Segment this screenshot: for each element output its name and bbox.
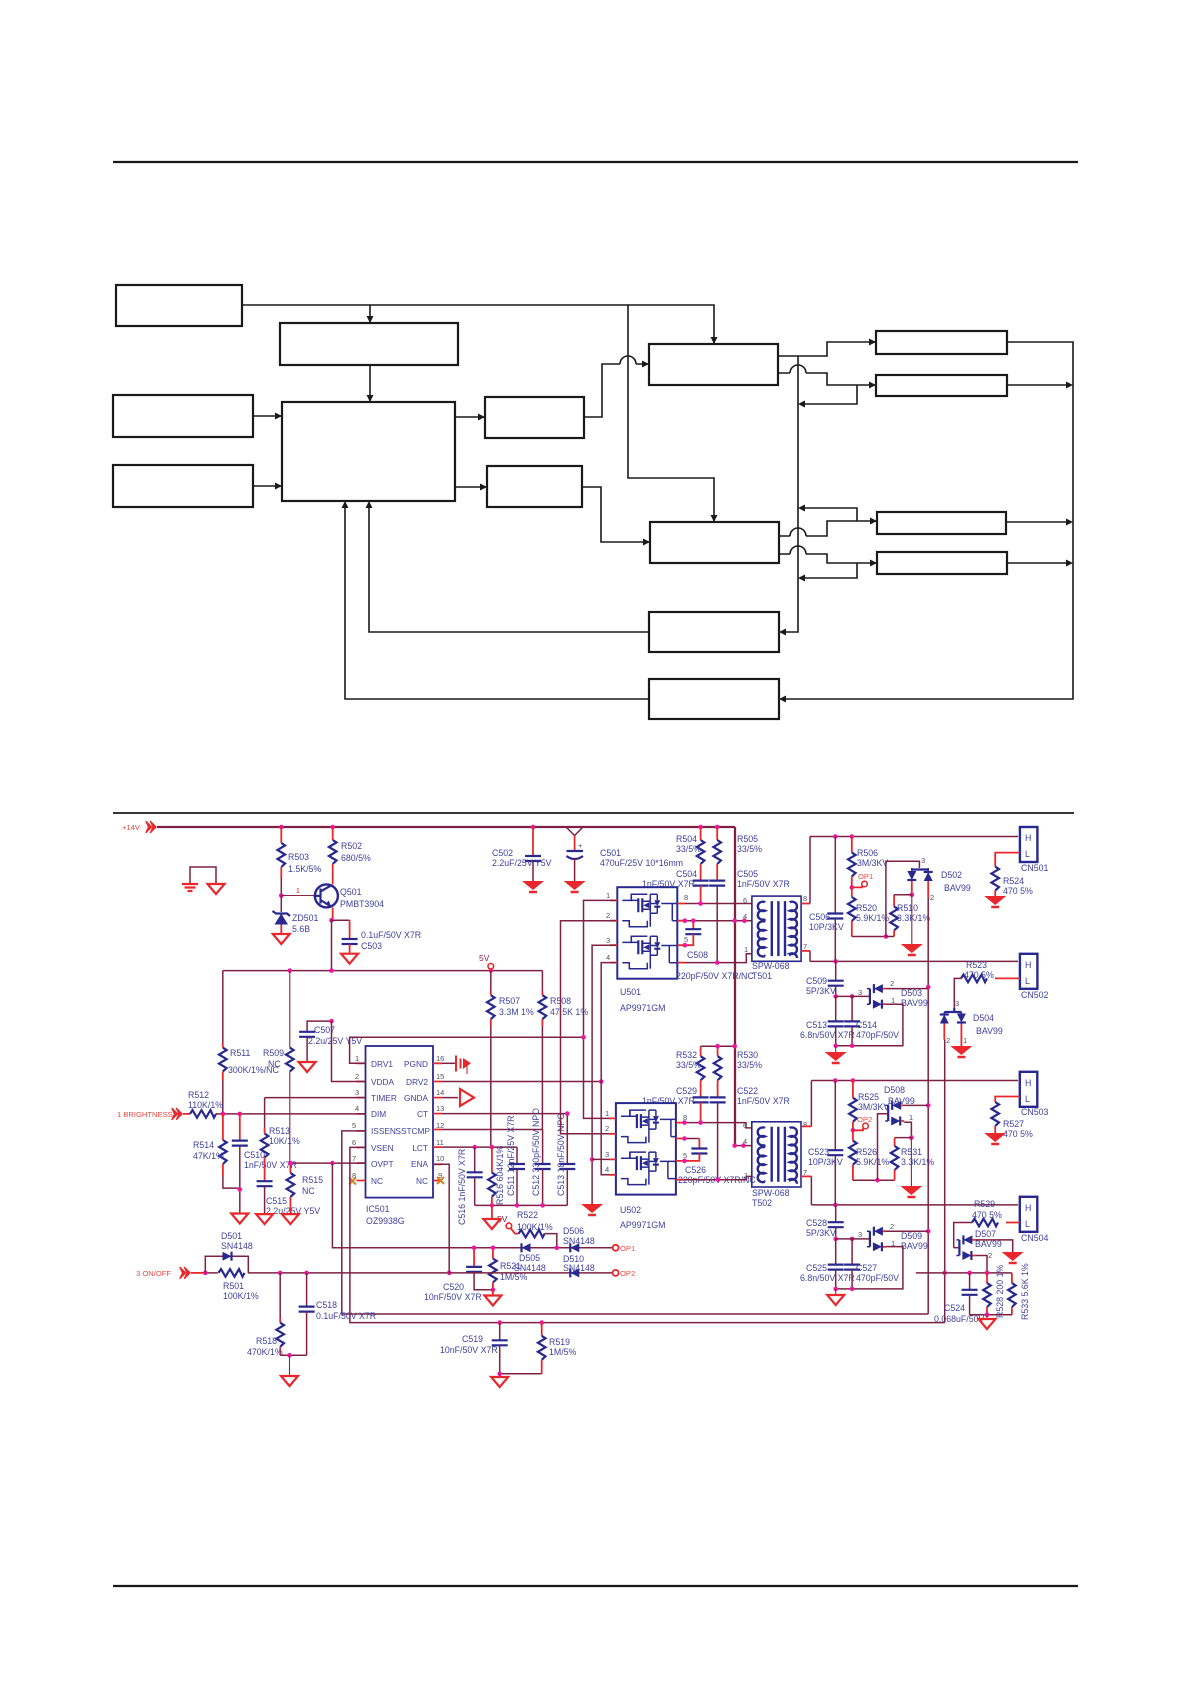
svg-text:47.5K 1%: 47.5K 1%	[550, 1007, 588, 1017]
svg-text:R501: R501	[223, 1281, 244, 1291]
svg-text:C503: C503	[361, 941, 382, 951]
vertical feedback bus to B10	[781, 356, 798, 632]
ground C515	[256, 1214, 273, 1224]
svg-text:1M/5%: 1M/5%	[549, 1347, 577, 1357]
resistor R521	[492, 1248, 494, 1259]
wire C519 R519 bottom	[500, 1373, 542, 1375]
svg-text:8: 8	[803, 1120, 807, 1129]
resistor R531	[895, 1137, 912, 1139]
svg-text:C526: C526	[685, 1165, 706, 1175]
svg-text:R512: R512	[188, 1090, 209, 1100]
svg-text:ENA: ENA	[411, 1159, 429, 1169]
wire B8 to BB with hop	[778, 365, 875, 385]
svg-text:NC: NC	[416, 1176, 428, 1186]
block box B9	[650, 522, 779, 563]
svg-text:D509: D509	[901, 1231, 922, 1241]
ground C501	[564, 881, 586, 892]
resistor R527	[995, 1097, 1020, 1103]
svg-text:NC: NC	[302, 1186, 315, 1196]
svg-text:SN4148: SN4148	[514, 1263, 546, 1273]
svg-text:L: L	[1025, 1094, 1030, 1104]
svg-text:5: 5	[683, 1151, 687, 1160]
svg-text:6: 6	[743, 896, 747, 905]
ground C503	[341, 954, 358, 964]
capacitor C513	[835, 996, 837, 1021]
resistor R505	[716, 827, 718, 840]
ground ZD501	[273, 934, 290, 944]
svg-text:D507: D507	[975, 1229, 996, 1239]
svg-text:C511 12nF/25V X7R: C511 12nF/25V X7R	[506, 1115, 516, 1196]
svg-text:6: 6	[743, 1121, 747, 1130]
capacitor C526	[685, 1138, 700, 1140]
block box B6	[485, 397, 584, 438]
wire B2 to B5	[369, 365, 371, 401]
svg-text:1.5K/5%: 1.5K/5%	[288, 864, 321, 874]
wire pin2 bus	[561, 921, 617, 1134]
svg-text:16: 16	[436, 1054, 444, 1063]
resistor R513	[264, 1098, 266, 1128]
svg-text:C513: C513	[806, 1020, 827, 1030]
wire DRV1 to gate bus	[350, 1037, 584, 1063]
svg-text:1nF/50V X7R: 1nF/50V X7R	[737, 879, 790, 889]
capacitor C502	[532, 827, 534, 856]
svg-text:LCT: LCT	[412, 1143, 428, 1153]
wire riser to D508	[878, 1114, 889, 1180]
svg-text:R518: R518	[256, 1336, 277, 1346]
svg-text:SN4148: SN4148	[563, 1263, 595, 1273]
wire BC to right bus	[1006, 521, 1070, 523]
svg-text:BAV99: BAV99	[901, 998, 928, 1008]
wire gate bus A (DRV1)	[584, 900, 617, 1118]
svg-text:11: 11	[436, 1138, 444, 1147]
wire B9 to BD with hop	[779, 546, 876, 563]
svg-text:680/5%: 680/5%	[341, 853, 371, 863]
ground LCT bus	[483, 1219, 500, 1229]
svg-text:1 BRIGHTNESS: 1 BRIGHTNESS	[117, 1110, 173, 1119]
svg-text:R523: R523	[966, 960, 987, 970]
capacitor C515	[257, 1181, 273, 1186]
svg-text:AP9971GM: AP9971GM	[620, 1003, 665, 1013]
svg-text:SSTCMP: SSTCMP	[395, 1126, 430, 1136]
feedback BD to bus	[800, 563, 857, 578]
wire D509 pin2 to bus	[886, 1230, 928, 1232]
svg-text:R507: R507	[499, 996, 520, 1006]
svg-text:GNDA: GNDA	[404, 1093, 428, 1103]
svg-text:R503: R503	[288, 852, 309, 862]
svg-text:2: 2	[605, 1124, 609, 1133]
block box B11	[649, 679, 779, 719]
svg-text:15: 15	[436, 1072, 444, 1081]
wire LCT row	[442, 1146, 517, 1148]
svg-text:2.2uF/25V Y5V: 2.2uF/25V Y5V	[492, 858, 552, 868]
svg-text:CN503: CN503	[1021, 1107, 1048, 1117]
svg-text:3: 3	[606, 936, 610, 945]
wire VDDA from emitter bus	[332, 1021, 366, 1081]
svg-text:3 ON/OFF: 3 ON/OFF	[136, 1269, 171, 1278]
svg-text:BAV99: BAV99	[901, 1241, 928, 1251]
svg-text:D502: D502	[941, 870, 962, 880]
capacitor C523	[834, 1081, 836, 1151]
svg-text:5: 5	[352, 1121, 356, 1130]
wire Q501 emitter down	[332, 908, 334, 919]
bottom rule	[113, 1585, 1078, 1587]
svg-text:R515: R515	[302, 1175, 323, 1185]
net ON/OFF arrow	[180, 1267, 190, 1278]
wire B7 to B9	[582, 487, 649, 542]
capacitor C506	[834, 837, 836, 914]
svg-text:AP9971GM: AP9971GM	[620, 1220, 665, 1230]
resistor R506	[851, 837, 853, 853]
resistor R509	[289, 971, 291, 1048]
ground C513	[825, 1052, 847, 1063]
ground R521	[484, 1296, 501, 1306]
svg-text:1: 1	[909, 1113, 913, 1122]
top rule	[113, 161, 1078, 163]
wire T502 pin8 to CN503 H	[801, 1125, 811, 1127]
node emitter	[329, 918, 334, 923]
wire B5 to B6	[455, 416, 484, 418]
resistor R518	[279, 1273, 281, 1318]
wire C501 V tap on rail	[566, 827, 583, 836]
svg-text:470 5%: 470 5%	[1003, 886, 1033, 896]
capacitor C501 electrolytic	[574, 836, 576, 852]
svg-text:SPW-068: SPW-068	[752, 961, 790, 971]
transformer T501	[752, 896, 801, 961]
svg-text:+14V: +14V	[122, 823, 141, 832]
svg-text:T501: T501	[752, 971, 772, 981]
wire D507 pin2 to ground	[975, 1240, 1012, 1252]
ground triangle-style	[208, 884, 225, 894]
svg-text:C523: C523	[808, 1147, 829, 1157]
svg-text:100K/1%: 100K/1%	[517, 1222, 553, 1232]
svg-text:DRV2: DRV2	[406, 1077, 428, 1087]
node OP2	[613, 1270, 619, 1276]
resistor R510	[911, 881, 913, 895]
svg-text:R519: R519	[549, 1337, 570, 1347]
svg-text:4: 4	[743, 1137, 747, 1146]
svg-text:47K/1%: 47K/1%	[193, 1151, 224, 1161]
svg-text:4: 4	[355, 1104, 359, 1113]
wire R526 bottom node	[853, 1179, 895, 1181]
svg-text:3M/3KV: 3M/3KV	[858, 1102, 889, 1112]
resistor R501	[219, 1269, 245, 1277]
svg-text:R516 604K/1%: R516 604K/1%	[495, 1146, 505, 1205]
wire C524 bottom row	[970, 1314, 1012, 1316]
svg-text:8: 8	[803, 894, 807, 903]
zener ZD501	[280, 896, 282, 913]
resistor R524	[995, 853, 1020, 867]
ground C519	[491, 1377, 508, 1387]
svg-text:BAV99: BAV99	[888, 1096, 915, 1106]
svg-text:T502: T502	[752, 1198, 772, 1208]
svg-text:2: 2	[606, 911, 610, 920]
wire 5V bus	[223, 920, 543, 970]
wire D503 pin1 loop	[836, 1004, 903, 1045]
resistor R532	[700, 1046, 702, 1056]
svg-text:+: +	[578, 841, 583, 850]
svg-text:4: 4	[606, 953, 610, 962]
svg-text:10K/1%: 10K/1%	[269, 1136, 300, 1146]
diode D508 dual	[885, 1101, 904, 1126]
wire C524 node row	[916, 1272, 1012, 1274]
svg-text:SPW-068: SPW-068	[752, 1188, 790, 1198]
wire D507 pin1 down	[975, 1256, 987, 1273]
capacitor C504	[693, 881, 709, 886]
svg-text:PGND: PGND	[404, 1059, 428, 1069]
ground earth-style	[182, 884, 198, 891]
svg-text:R509: R509	[263, 1048, 284, 1058]
wire T501 pin7 to CN502 H	[801, 950, 810, 952]
svg-text:H: H	[1025, 1078, 1031, 1088]
resistor R523	[995, 977, 1020, 979]
svg-text:3: 3	[921, 856, 925, 865]
diode D505	[522, 1243, 531, 1252]
svg-text:ZD501: ZD501	[292, 913, 319, 923]
block box BD	[877, 552, 1007, 574]
svg-text:OP2: OP2	[620, 1269, 635, 1278]
svg-text:C501: C501	[600, 848, 621, 858]
capacitor C518	[306, 1273, 308, 1307]
svg-text:470pF/50V: 470pF/50V	[856, 1030, 899, 1040]
svg-text:C505: C505	[737, 869, 758, 879]
svg-text:4: 4	[743, 912, 747, 921]
svg-text:C516 1nF/50V X7R: C516 1nF/50V X7R	[457, 1149, 467, 1225]
wire U501 pin8 to T501 pin6	[685, 903, 752, 905]
connector CN502	[1020, 954, 1038, 989]
svg-text:R504: R504	[676, 834, 697, 844]
svg-text:3.3M 1%: 3.3M 1%	[499, 1007, 534, 1017]
block box BA	[876, 331, 1007, 354]
ground D502 R510	[911, 895, 913, 944]
svg-text:3: 3	[355, 1088, 359, 1097]
ground R518	[281, 1376, 298, 1386]
svg-text:NC: NC	[371, 1176, 383, 1186]
wire BB to right bus	[1007, 384, 1070, 386]
block box B3	[113, 395, 253, 437]
capacitor C514	[851, 996, 853, 1021]
wire R520 bottom to sense node	[852, 936, 886, 938]
resistor R528	[986, 1273, 988, 1283]
wire D503 pin2 to bus	[886, 988, 928, 990]
resistor R511	[222, 971, 224, 1043]
node OP2 tap	[851, 1128, 856, 1133]
svg-text:D503: D503	[901, 988, 922, 998]
svg-text:VSEN: VSEN	[371, 1143, 394, 1153]
resistor R519	[541, 1323, 543, 1336]
svg-text:L: L	[1025, 849, 1030, 859]
wire D502 pin2 to feedback bus	[927, 881, 929, 898]
svg-text:3.3K/1%: 3.3K/1%	[901, 1157, 934, 1167]
svg-text:OP1: OP1	[620, 1244, 635, 1253]
svg-text:3: 3	[858, 1230, 862, 1239]
svg-text:C506: C506	[809, 912, 830, 922]
svg-text:10P/3KV: 10P/3KV	[809, 922, 844, 932]
svg-text:C528: C528	[806, 1218, 827, 1228]
svg-text:OVPT: OVPT	[371, 1159, 394, 1169]
connector CN503	[1020, 1072, 1038, 1107]
svg-text:H: H	[1025, 1203, 1031, 1213]
svg-text:R510: R510	[897, 903, 918, 913]
wire D508 pin1 to R531	[904, 1122, 911, 1137]
wire ON/OFF row	[191, 1272, 205, 1274]
svg-text:6: 6	[352, 1138, 356, 1147]
svg-text:C504: C504	[676, 869, 697, 879]
svg-text:U502: U502	[620, 1205, 641, 1215]
svg-text:2: 2	[890, 979, 894, 988]
svg-text:D508: D508	[884, 1085, 905, 1095]
svg-text:BAV99: BAV99	[944, 883, 971, 893]
wire B10 to B5 bottom	[369, 503, 649, 632]
svg-text:110K/1%: 110K/1%	[188, 1100, 223, 1110]
capacitor C528	[835, 1205, 837, 1222]
resistor R526	[852, 1130, 854, 1140]
capacitor C516	[474, 1147, 476, 1172]
wire OVPT row	[290, 1162, 365, 1164]
capacitor C524	[969, 1273, 971, 1290]
svg-text:10nF/50V X7R: 10nF/50V X7R	[424, 1292, 482, 1302]
svg-text:14: 14	[436, 1088, 444, 1097]
svg-text:1: 1	[744, 1171, 748, 1180]
resistor R507	[490, 971, 492, 991]
svg-text:R529: R529	[974, 1199, 995, 1209]
svg-text:5P/3KV: 5P/3KV	[806, 1228, 836, 1238]
PGND symbol	[442, 1062, 455, 1064]
wire OVPT drop to OP1 row	[332, 1163, 612, 1248]
svg-text:1: 1	[606, 891, 610, 900]
block box B10	[649, 612, 779, 652]
block box B5	[282, 402, 455, 501]
wire LCT bottom bus	[475, 1204, 568, 1206]
svg-text:SN4148: SN4148	[563, 1236, 595, 1246]
diode D503 dual	[867, 984, 886, 1009]
svg-text:5.9K/1%: 5.9K/1%	[856, 913, 889, 923]
wire +14V rail	[157, 826, 735, 828]
svg-text:C524: C524	[944, 1303, 965, 1313]
diode D507 dual	[954, 1247, 960, 1249]
svg-text:1: 1	[963, 1036, 967, 1045]
feedback BB input to bus	[800, 385, 857, 404]
svg-text:C525: C525	[806, 1263, 827, 1273]
connector CN504	[1020, 1197, 1038, 1232]
ground C524	[979, 1319, 996, 1329]
ground R527	[984, 1133, 1006, 1144]
svg-text:1: 1	[744, 945, 748, 954]
GNDA symbol	[442, 1097, 458, 1099]
block box BC	[877, 512, 1006, 534]
svg-text:7: 7	[352, 1154, 356, 1163]
wire H2 C519 R519	[497, 1320, 502, 1325]
svg-text:470K/1%: 470K/1%	[247, 1347, 283, 1357]
resistor R508	[541, 971, 543, 991]
mosfet U501	[617, 887, 677, 979]
resistor R515	[289, 1163, 291, 1173]
svg-text:R513: R513	[269, 1126, 290, 1136]
wire Q501 base to R503 node	[281, 895, 313, 897]
svg-text:5.9K/1%: 5.9K/1%	[856, 1157, 889, 1167]
svg-text:1: 1	[605, 1109, 609, 1118]
svg-text:R506: R506	[857, 848, 878, 858]
capacitor C529	[693, 1097, 709, 1102]
svg-text:3: 3	[605, 1150, 609, 1159]
wire B4 to B5	[253, 485, 281, 487]
wire branch down to B2	[369, 305, 371, 322]
resistor R533	[1011, 1273, 1013, 1283]
diode D501 loop	[205, 1256, 248, 1273]
svg-text:1nF/50V X7R: 1nF/50V X7R	[737, 1096, 790, 1106]
svg-text:C522: C522	[737, 1086, 758, 1096]
resistor R516	[491, 1147, 493, 1173]
capacitor C519	[499, 1323, 501, 1341]
ground C525	[827, 1295, 844, 1305]
connector CN501	[1020, 827, 1038, 862]
wire R518 C518 gnd join	[280, 1354, 306, 1356]
wire B5 to B7	[455, 486, 486, 488]
resistor R530	[717, 1046, 719, 1056]
resistor R502	[332, 827, 334, 840]
block box B7	[487, 466, 582, 507]
svg-text:CT: CT	[417, 1109, 428, 1119]
svg-text:R514: R514	[193, 1140, 214, 1150]
resistor R504	[700, 827, 702, 840]
net BRIGHTNESS arrow	[172, 1108, 182, 1119]
svg-text:1nF/50V X7R: 1nF/50V X7R	[642, 1096, 695, 1106]
capacitor C522	[710, 1097, 726, 1102]
block box B4	[113, 465, 253, 507]
svg-text:R527: R527	[1003, 1119, 1024, 1129]
svg-text:0.1uF/50V X7R: 0.1uF/50V X7R	[316, 1311, 376, 1321]
ground R531	[910, 1138, 912, 1186]
wire B11 to B5 bottom	[345, 503, 649, 699]
svg-text:0.1uF/50V X7R: 0.1uF/50V X7R	[361, 930, 421, 940]
svg-text:SN4148: SN4148	[221, 1241, 253, 1251]
block box BB	[876, 375, 1007, 396]
svg-text:1: 1	[355, 1054, 359, 1063]
svg-text:CN501: CN501	[1021, 863, 1048, 873]
svg-text:H: H	[1025, 960, 1031, 970]
capacitor C508	[692, 921, 694, 930]
capacitor C507	[307, 1021, 331, 1032]
svg-text:2: 2	[946, 1036, 950, 1045]
diode D504 dual	[944, 1008, 961, 1012]
svg-text:C502: C502	[492, 848, 513, 858]
wire B6 to B8 with hop	[584, 356, 648, 417]
svg-text:470 5%: 470 5%	[972, 1210, 1002, 1220]
wire D508 pin2 to bus	[904, 1104, 928, 1106]
svg-text:33/5%: 33/5%	[737, 1060, 762, 1070]
svg-text:C529: C529	[676, 1086, 697, 1096]
svg-text:DIM: DIM	[371, 1109, 386, 1119]
svg-text:R530: R530	[737, 1050, 758, 1060]
capacitor C525	[835, 1239, 837, 1265]
svg-text:13: 13	[436, 1104, 444, 1113]
feedback BC to bus	[800, 508, 857, 521]
svg-text:3.3K/1%: 3.3K/1%	[897, 913, 930, 923]
wire T501 pin8 to CN501 H	[801, 903, 810, 905]
ground source bus	[581, 1204, 603, 1215]
svg-text:470 5%: 470 5%	[1003, 1129, 1033, 1139]
node rail junctions	[279, 825, 284, 830]
svg-text:H: H	[1025, 833, 1031, 843]
svg-text:5P/3KV: 5P/3KV	[806, 986, 836, 996]
svg-text:10: 10	[436, 1154, 444, 1163]
wire C509 chain	[835, 961, 837, 980]
mosfet U502	[616, 1103, 676, 1195]
svg-text:C514: C514	[856, 1020, 877, 1030]
wire U502 pin8 to T502 pin6	[684, 1123, 752, 1128]
wire B8 to BA	[778, 342, 875, 356]
resistor R520	[851, 887, 853, 897]
svg-text:5.6B: 5.6B	[292, 924, 310, 934]
